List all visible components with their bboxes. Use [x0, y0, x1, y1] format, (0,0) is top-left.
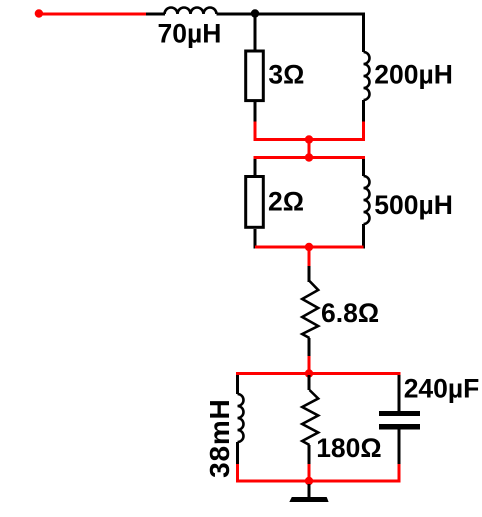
wire	[308, 247, 311, 266]
wire	[398, 464, 401, 483]
node	[305, 135, 313, 143]
wire	[254, 14, 257, 50]
wire	[236, 464, 239, 483]
wire	[308, 338, 311, 356]
wire	[255, 13, 364, 16]
inductor 500µH	[364, 176, 370, 224]
resistor 3Ω	[246, 51, 264, 101]
capacitor 240µF plate 2	[379, 424, 420, 430]
svg-text:180Ω: 180Ω	[316, 433, 381, 463]
svg-text:240µF: 240µF	[404, 374, 480, 404]
wire	[308, 140, 311, 158]
node	[305, 369, 313, 377]
wire	[362, 100, 365, 122]
wire rail2	[254, 156, 366, 159]
wire	[254, 229, 257, 249]
svg-text:200µH: 200µH	[374, 60, 453, 90]
wire	[362, 122, 365, 142]
wire	[217, 13, 256, 16]
wire	[236, 375, 239, 394]
svg-text:3Ω: 3Ω	[268, 59, 304, 89]
node	[305, 153, 313, 161]
node	[305, 477, 313, 485]
node junction	[251, 9, 259, 17]
resistor 2Ω	[246, 177, 264, 228]
wire rail3	[255, 246, 364, 249]
wire	[362, 159, 365, 176]
resistor 180Ω	[302, 390, 318, 445]
wire	[308, 484, 311, 498]
wire	[308, 356, 311, 375]
resistor 6.8Ω	[302, 281, 318, 338]
wire	[236, 442, 239, 464]
ground	[289, 497, 328, 502]
wire	[362, 13, 365, 53]
node input terminal	[35, 9, 43, 17]
svg-text:500µH: 500µH	[374, 190, 453, 220]
svg-text:6.8Ω: 6.8Ω	[321, 298, 379, 328]
inductor 70µH	[165, 8, 217, 14]
svg-text:70µH: 70µH	[158, 18, 222, 48]
wire	[308, 375, 311, 390]
wire	[308, 464, 311, 481]
svg-text:38mH: 38mH	[204, 398, 235, 477]
wire rail4	[236, 372, 401, 375]
node	[305, 243, 313, 251]
wire	[146, 13, 165, 16]
wire	[308, 445, 311, 464]
wire	[254, 159, 257, 175]
capacitor 240µF plate 1	[379, 411, 420, 416]
svg-text:2Ω: 2Ω	[268, 186, 304, 216]
wire	[254, 102, 257, 122]
wire	[362, 224, 365, 249]
inductor 200µH	[364, 52, 370, 100]
inductor 38mH	[238, 394, 244, 442]
wire	[398, 430, 401, 465]
wire	[398, 375, 401, 411]
wire	[254, 122, 257, 142]
wire rail5	[236, 480, 401, 483]
wire	[41, 13, 146, 16]
wire rail1	[254, 138, 366, 141]
wire	[308, 266, 311, 282]
